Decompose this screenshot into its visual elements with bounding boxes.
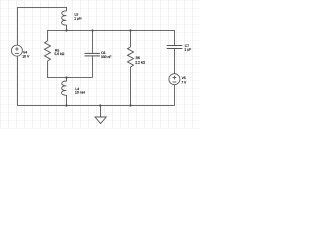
wire R5 bottom lead and connector to C6 (48, 61, 93, 78)
wire C6 top lead (92, 31, 94, 53)
wire R5 top lead (47, 31, 49, 42)
svg-text:R6: R6 (136, 56, 140, 60)
node junction L4 top / connector (65, 76, 67, 78)
svg-text:1 μH: 1 μH (74, 17, 82, 21)
label R6 (135, 56, 145, 64)
svg-text:330 nF: 330 nF (101, 55, 112, 59)
capacitor C6 (85, 53, 101, 56)
inductor L5 (62, 8, 67, 31)
wire middle rail (47, 30, 175, 32)
label C7 (184, 44, 191, 52)
voltage source V4 (11, 45, 22, 56)
resistor R6 (128, 47, 134, 67)
inductor L4 (62, 78, 67, 106)
grid background (0, 0, 200, 129)
label L4 (75, 87, 86, 94)
node junction L5 / middle rail (65, 29, 67, 31)
node junction R6 / middle rail (129, 29, 131, 31)
label R5 (54, 48, 64, 56)
svg-text:5.6 kΩ: 5.6 kΩ (54, 52, 64, 56)
label V4 (22, 51, 30, 59)
wire bottom rail (18, 105, 175, 107)
wire C6 bottom lead (92, 56, 94, 77)
svg-text:10 V: 10 V (22, 55, 30, 59)
svg-text:7 V: 7 V (181, 80, 187, 84)
node junction L4 / bottom rail (65, 104, 67, 106)
node junction C6 / middle rail (91, 29, 93, 31)
label C6 (101, 51, 112, 59)
wire C7 top lead (174, 31, 176, 46)
wire left column bottom (V4 to bottom rail) (17, 56, 19, 106)
wire R6 top lead (130, 31, 132, 48)
wire left column top (top rail to V4) (17, 7, 19, 45)
svg-text:10 mH: 10 mH (75, 91, 86, 95)
label V5 (181, 76, 187, 84)
svg-text:1 μF: 1 μF (184, 48, 191, 52)
ground (95, 106, 106, 124)
voltage source V5 (169, 74, 180, 85)
label L5 (74, 13, 82, 21)
svg-text:2.2 kΩ: 2.2 kΩ (135, 61, 145, 65)
wire C7 to V5 (174, 49, 176, 74)
wire V5 bottom lead (174, 85, 176, 106)
wire R6 bottom lead (130, 67, 132, 106)
resistor R5 (45, 41, 51, 61)
wire top rail (17, 7, 67, 9)
capacitor C7 (167, 46, 183, 49)
node junction ground / bottom rail (99, 104, 101, 106)
node junction R6 / bottom rail (129, 104, 131, 106)
